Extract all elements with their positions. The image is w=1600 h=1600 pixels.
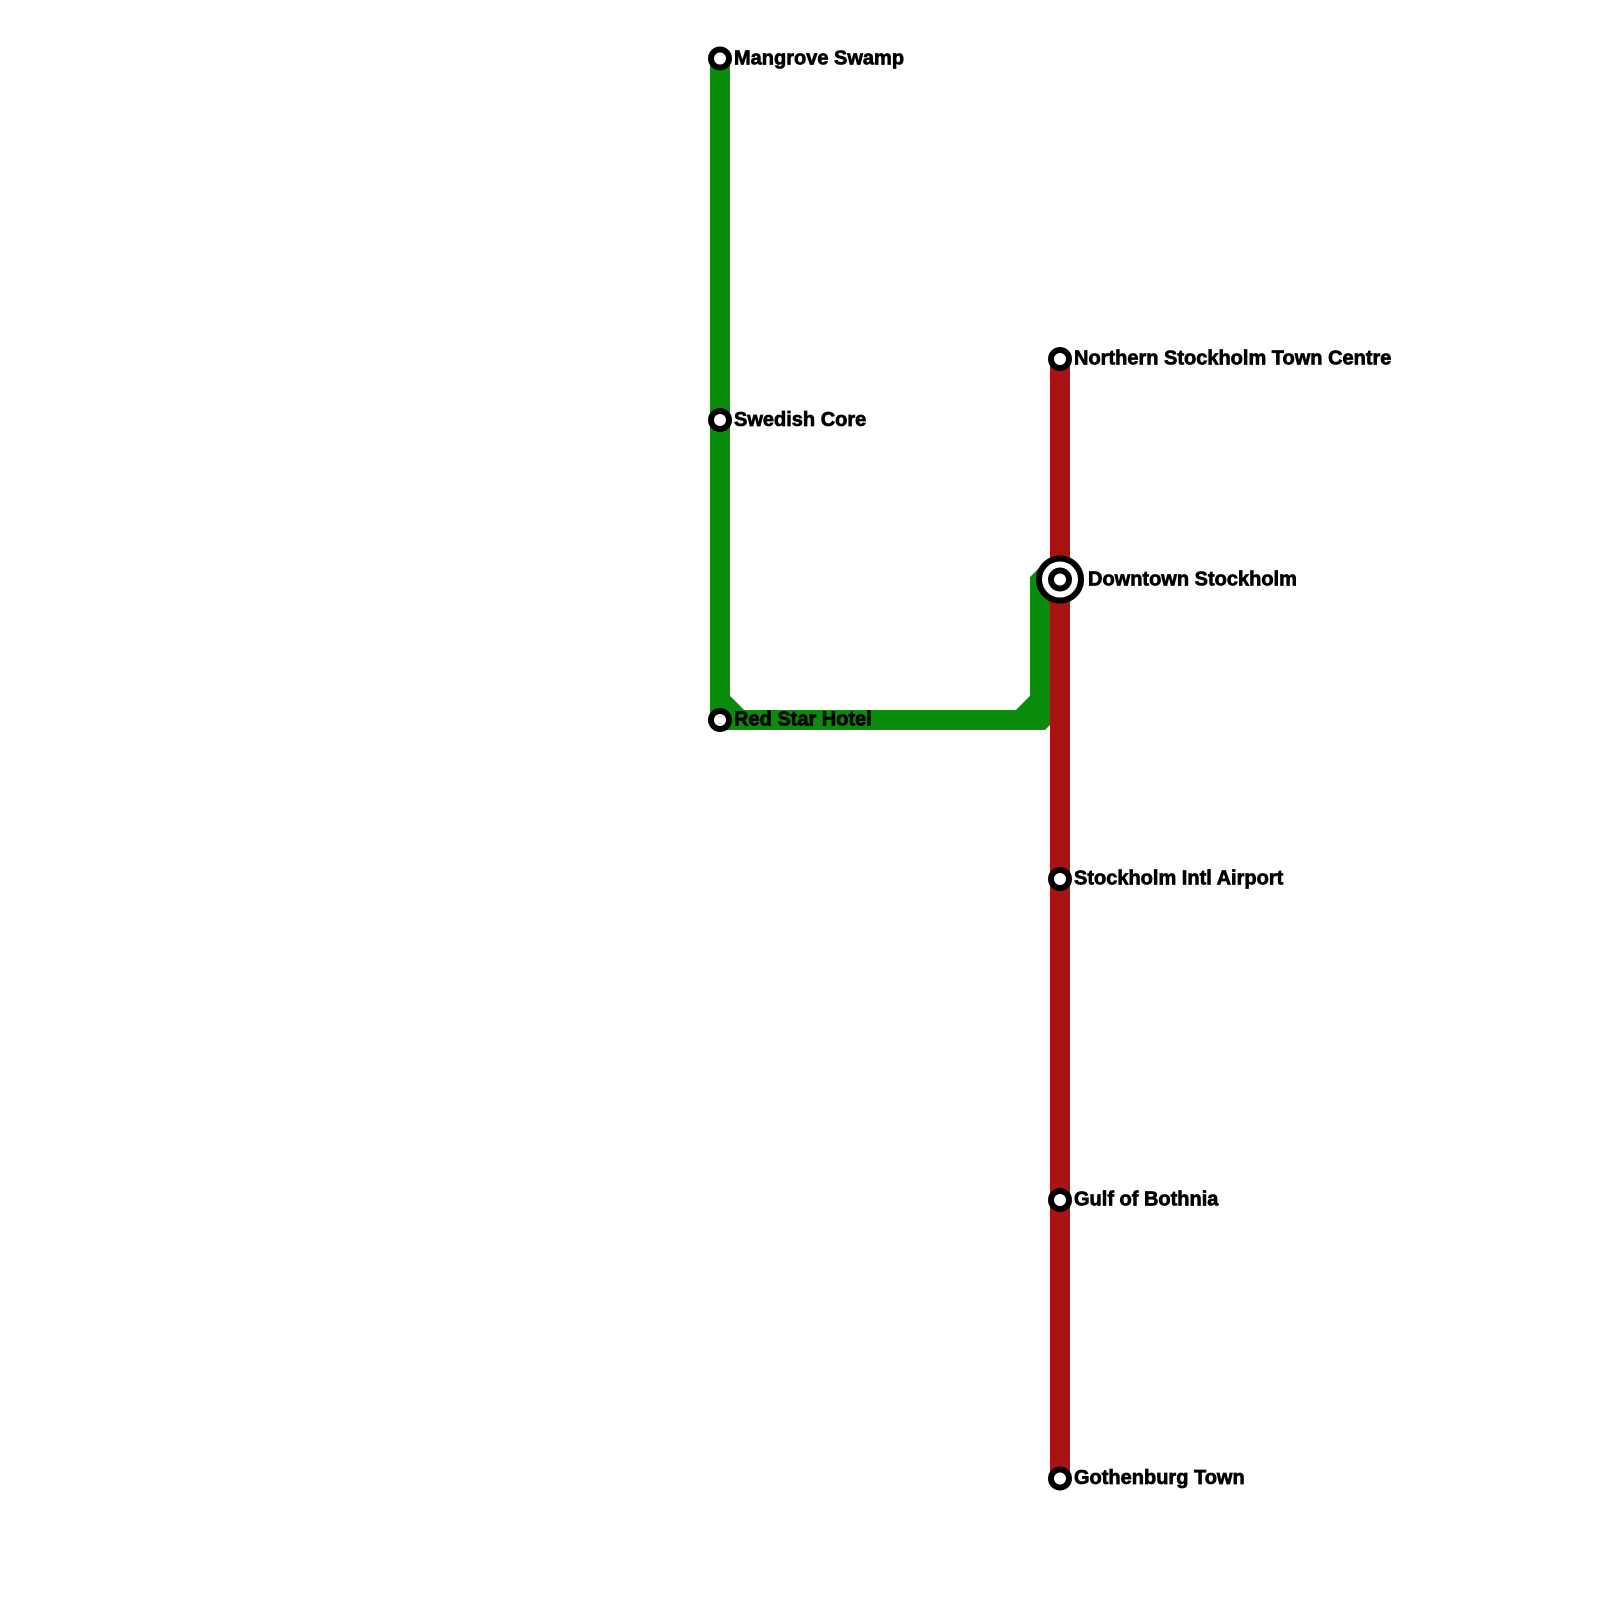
svg-text:Gulf of Bothnia: Gulf of Bothnia <box>1074 1189 1219 1211</box>
svg-text:Northern Stockholm Town Centre: Northern Stockholm Town Centre <box>1074 348 1391 370</box>
svg-text:Gothenburg Town: Gothenburg Town <box>1074 1467 1245 1489</box>
svg-text:Red Star Hotel: Red Star Hotel <box>734 709 872 731</box>
svg-text:Stockholm Intl Airport: Stockholm Intl Airport <box>1074 868 1284 890</box>
svg-text:Mangrove Swamp: Mangrove Swamp <box>734 48 904 70</box>
svg-text:Swedish Core: Swedish Core <box>734 409 866 431</box>
svg-text:Downtown Stockholm: Downtown Stockholm <box>1088 569 1297 591</box>
